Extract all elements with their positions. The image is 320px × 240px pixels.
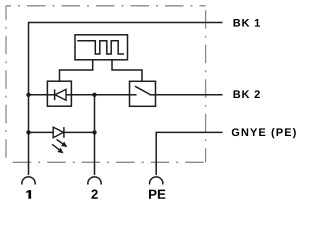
dash-dot enclosure border bottom [6, 161, 206, 163]
terminal pin 1 arc [22, 177, 35, 185]
junction dot LED row right [92, 130, 96, 134]
wire U1 left leg to diode box [60, 60, 93, 81]
junction dot BK2/center riser [92, 93, 96, 97]
junction dot BK2/left riser [26, 93, 30, 97]
label GNYE (PE) [232, 128, 296, 138]
switch S1 box [130, 81, 156, 106]
wire center vertical (terminal 2 riser) [94, 95, 96, 175]
label BK 1 [234, 19, 260, 27]
LED V2 symbol [53, 127, 63, 138]
terminal 1 label [26, 190, 31, 199]
terminal PE label [149, 190, 165, 199]
junction dot LED row left [26, 130, 30, 134]
dash-dot enclosure border top [6, 5, 206, 7]
terminal 2 label [91, 190, 97, 199]
wire BK2 row horizontal [28, 94, 222, 96]
wire GNYE row to PE terminal [156, 132, 222, 175]
wire left vertical (terminal 1 riser) [28, 22, 30, 175]
diode V1 box [47, 81, 71, 106]
pulse waveform symbol [77, 41, 124, 54]
wire U1 right leg to switch box [112, 60, 142, 82]
switch S1 contact symbol [130, 94, 137, 96]
terminal pin 2 arc [88, 177, 101, 185]
wire BK1 top horizontal [29, 22, 223, 24]
LED light arrow 2 [52, 144, 64, 153]
pulse generator module U1 box [75, 35, 128, 60]
dash-dot enclosure border right [205, 6, 207, 163]
diode V1 symbol [55, 89, 66, 100]
terminal pin PE arc [150, 177, 163, 185]
label BK 2 [234, 90, 260, 98]
wire LED row horizontal [29, 131, 95, 133]
LED light arrow 1 [57, 139, 68, 147]
dash-dot enclosure border left [5, 6, 7, 163]
